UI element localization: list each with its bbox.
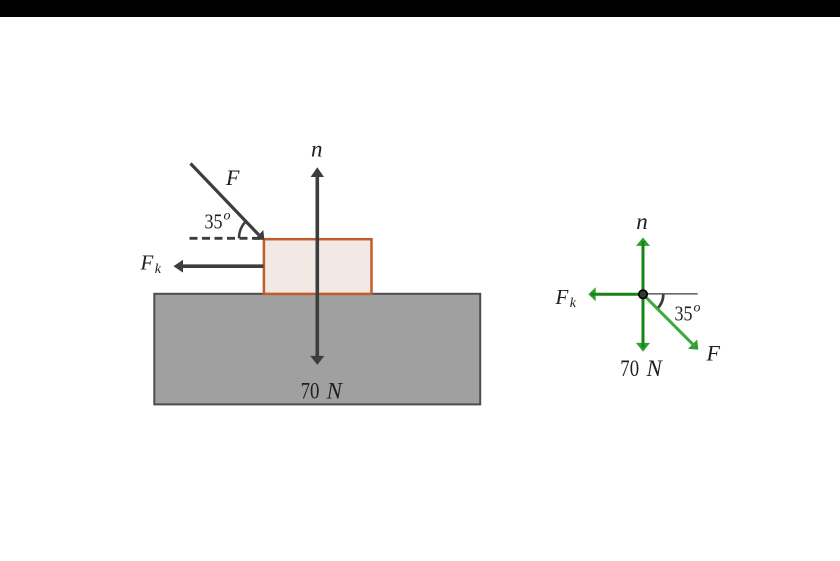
svg-text:N: N: [646, 356, 664, 381]
svg-text:k: k: [570, 296, 577, 311]
svg-text:F: F: [555, 285, 569, 309]
svg-text:k: k: [155, 262, 162, 277]
svg-text:F: F: [706, 341, 721, 366]
svg-text:F: F: [140, 251, 154, 275]
svg-text:35: 35: [675, 301, 693, 325]
svg-text:n: n: [636, 209, 648, 234]
svg-text:70: 70: [301, 378, 320, 403]
svg-text:70: 70: [620, 356, 639, 381]
svg-text:n: n: [311, 137, 323, 162]
svg-text:o: o: [694, 300, 701, 315]
svg-text:35: 35: [205, 210, 223, 234]
svg-text:F: F: [225, 165, 240, 190]
svg-text:o: o: [224, 209, 231, 224]
svg-text:N: N: [326, 378, 344, 403]
